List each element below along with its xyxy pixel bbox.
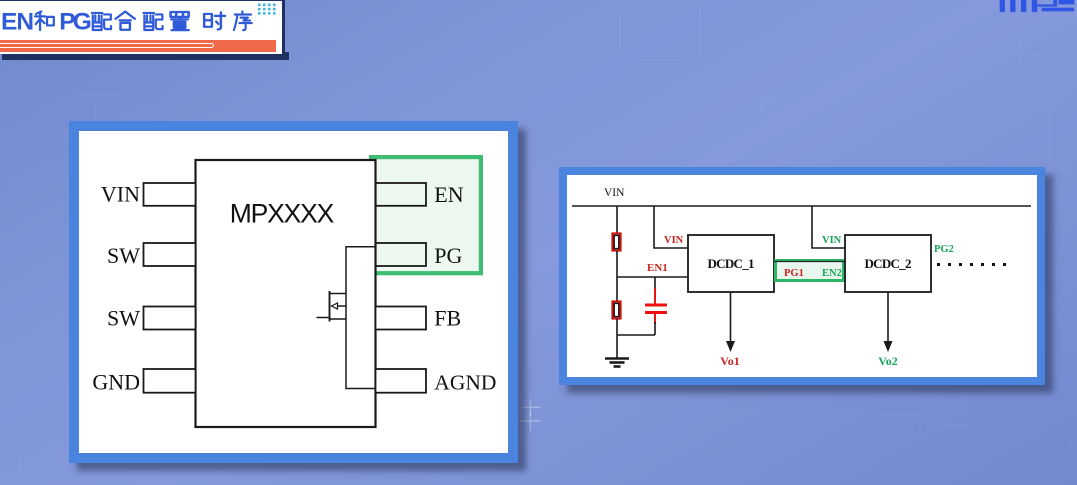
wire divider branch from rail — [616, 206, 618, 233]
svg-text:N: N — [16, 9, 34, 36]
svg-text:MPXXXX: MPXXXX — [230, 199, 335, 229]
wire bottom joining C1 — [617, 334, 655, 336]
glyph 序 — [234, 11, 252, 30]
resistor R1 — [613, 234, 621, 251]
pin EN (right 1) — [376, 183, 427, 206]
transistor Q1 gate lead — [317, 317, 330, 319]
wire rail to DCDC_1 VIN pin — [654, 206, 688, 248]
svg-text:DCDC_1: DCDC_1 — [708, 256, 755, 271]
svg-text:SW: SW — [107, 243, 140, 268]
dotted continuation after PG2 — [937, 263, 1006, 266]
chip U1 body — [196, 160, 376, 427]
title box — [2, 52, 289, 60]
pin SW (left 2) — [144, 243, 196, 266]
svg-text:Vo1: Vo1 — [720, 354, 740, 368]
output Vo2 arrow — [887, 292, 889, 345]
svg-text:VIN: VIN — [822, 235, 842, 246]
output Vo1 arrow — [730, 292, 732, 345]
transistor Q1 drain lead — [330, 293, 347, 295]
title orange bar — [0, 40, 276, 52]
pin VIN (left 1) — [144, 183, 196, 206]
wire VIN rail — [572, 205, 1031, 207]
block DCDC_2 — [845, 235, 931, 292]
svg-text:AGND: AGND — [434, 371, 496, 395]
pin AGND (right 4) — [376, 369, 427, 393]
pin GND (left 4) — [144, 369, 196, 393]
resistor R2 — [613, 302, 621, 319]
svg-text:EN: EN — [434, 182, 463, 207]
svg-text:PG: PG — [434, 243, 462, 268]
pin FB (right 3) — [376, 307, 427, 330]
wire PG pin to transistor bus to AGND pin — [346, 247, 376, 389]
ground — [605, 357, 629, 359]
glyph 时 — [204, 12, 225, 29]
green highlight box around EN and PG pins — [371, 157, 481, 273]
svg-text:VIN: VIN — [664, 235, 684, 246]
node EN1 wire to DCDC_1 — [617, 276, 688, 278]
svg-text:DCDC_2: DCDC_2 — [865, 256, 912, 271]
right panel (sequencing circuit) — [559, 167, 1045, 385]
green highlight connector PG1-EN2 — [776, 261, 844, 281]
transistor Q1 body lead with arrow — [337, 305, 346, 307]
title cyan dot grid — [258, 3, 282, 17]
svg-text:EN2: EN2 — [822, 268, 842, 279]
wire EN1 node down to C1 — [654, 277, 656, 288]
svg-text:SW: SW — [107, 306, 140, 331]
transistor Q1 source lead — [330, 318, 347, 320]
wire R2 to ground node — [616, 319, 618, 359]
svg-text:GND: GND — [92, 370, 140, 395]
block DCDC_1 — [688, 235, 774, 292]
wire PG1 to EN2 — [774, 261, 845, 263]
pin PG (right 2) — [376, 243, 427, 266]
glyph 和 — [35, 11, 54, 30]
svg-text:EN1: EN1 — [647, 262, 668, 274]
title orange bar white pill — [0, 43, 214, 49]
capacitor C1 (red) — [654, 288, 656, 304]
glyph 配 (2) — [143, 13, 162, 30]
wire C1 bottom — [654, 322, 656, 335]
svg-text:E: E — [1, 9, 17, 36]
svg-text:Vo2: Vo2 — [878, 354, 898, 368]
svg-text:VIN: VIN — [101, 182, 140, 207]
svg-text:G: G — [73, 9, 92, 36]
glyph 合 — [116, 12, 135, 30]
svg-text:VIN: VIN — [604, 187, 625, 199]
pin SW (left 3) — [144, 307, 196, 330]
left panel (chip pinout) — [69, 121, 518, 463]
transistor Q1 channel bar — [329, 291, 331, 322]
svg-text:PG2: PG2 — [934, 244, 954, 255]
svg-text:PG1: PG1 — [784, 268, 804, 279]
wire rail to DCDC_2 VIN pin — [812, 206, 845, 248]
wire EN1 to R2 — [616, 277, 618, 301]
title text EN和PG配合配置时序 (CJK drawn as strokes) — [0, 0, 265, 42]
svg-text:FB: FB — [434, 306, 461, 331]
glyph 配 (1) — [92, 13, 111, 30]
MPS logo (top-right, cut off at top) — [995, 0, 1077, 14]
wire R1 to EN1 node — [616, 251, 618, 277]
glyph 置 — [171, 12, 189, 30]
